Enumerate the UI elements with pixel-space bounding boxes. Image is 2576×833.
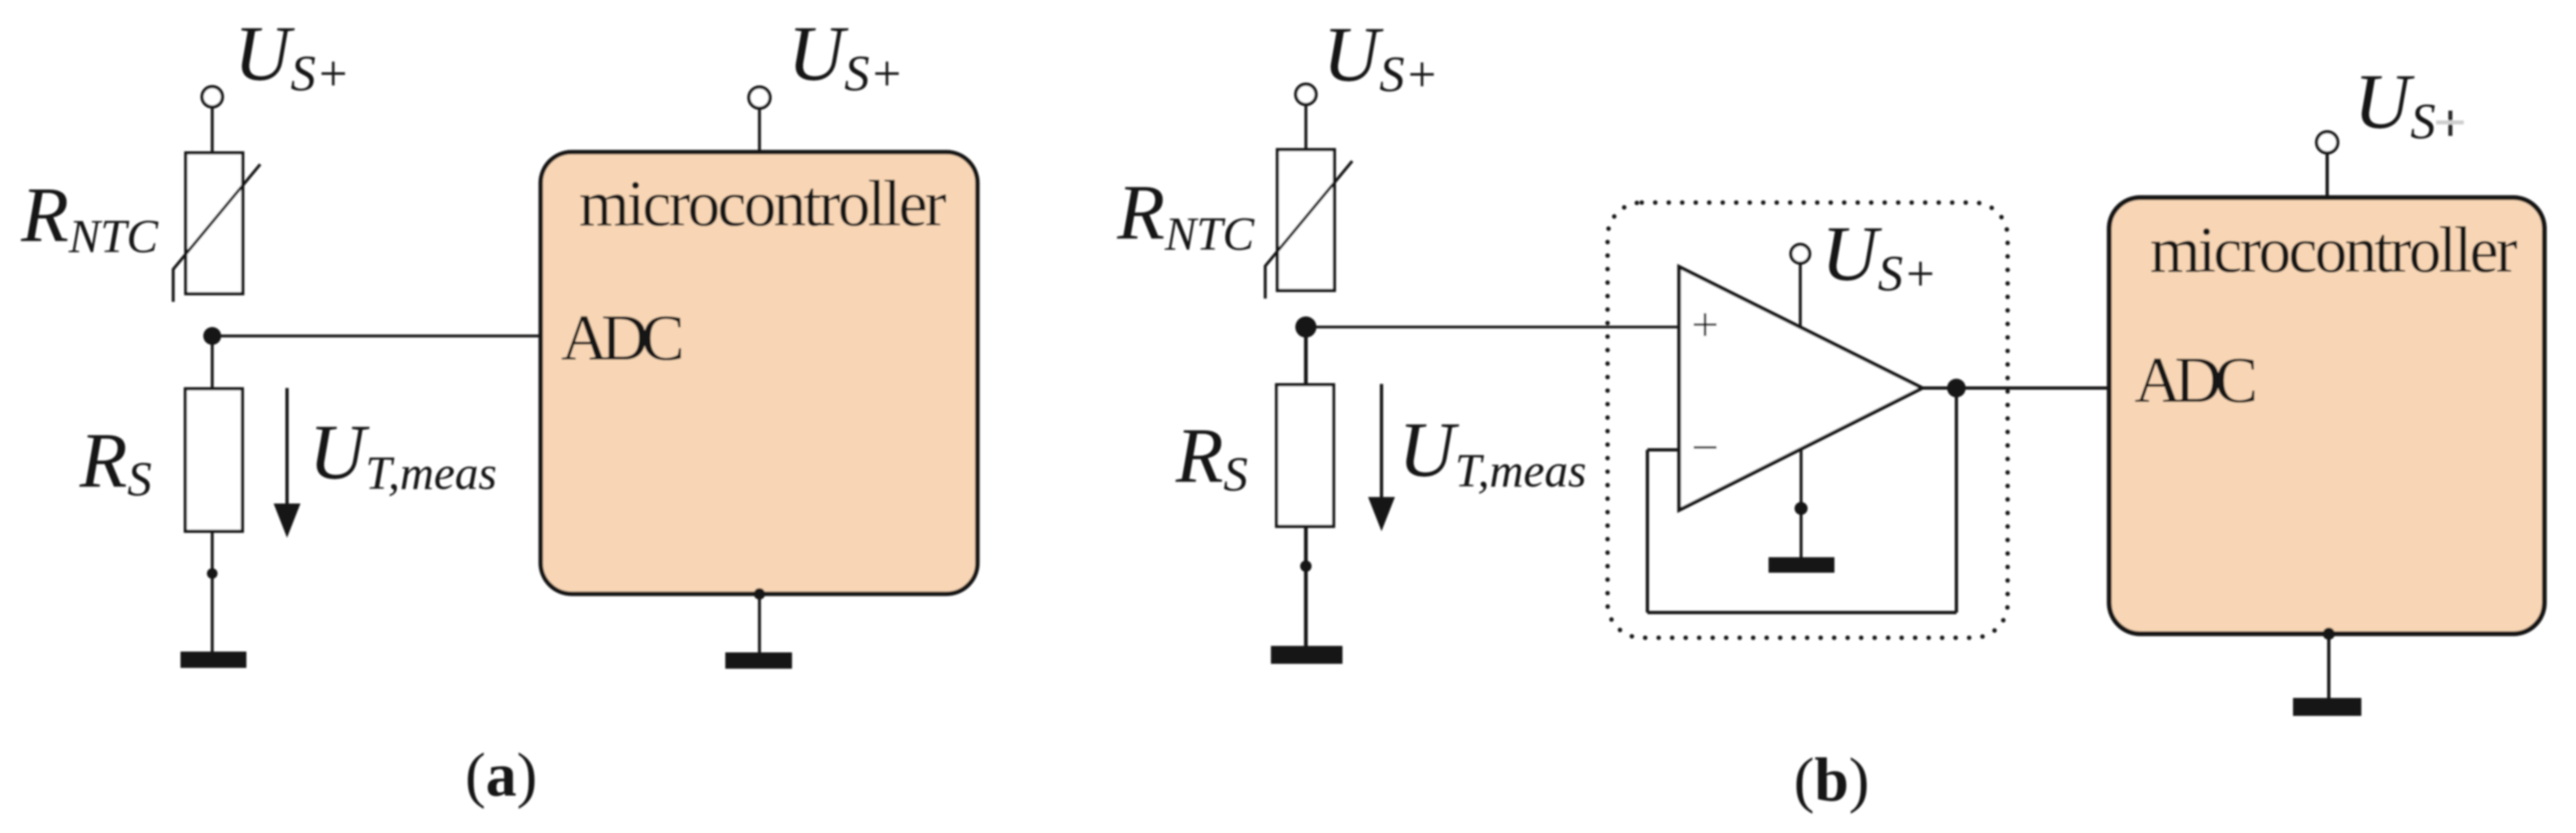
arrow U_T,meas (a): [285, 388, 289, 508]
microcontroller U1 (a): [541, 152, 977, 594]
ground (b divider): [1271, 646, 1342, 664]
resistor R_S (a): [185, 389, 242, 531]
wire junction to op-amp (b): [1306, 325, 1680, 328]
ground (op-amp): [1769, 557, 1834, 573]
svg-text:(b): (b): [1794, 746, 1869, 814]
svg-text:microcontroller: microcontroller: [579, 168, 946, 240]
wire op-amp to ground: [1799, 449, 1803, 559]
svg-text:US+: US+: [788, 10, 903, 102]
node US+ terminal (b micro): [2317, 132, 2338, 153]
node US+ terminal (a divider): [202, 87, 223, 107]
resistor R_S (b): [1277, 385, 1334, 526]
junction dot small (b): [1300, 560, 1312, 572]
junction dot box bottom (a): [754, 588, 765, 600]
svg-text:RNTC: RNTC: [20, 171, 159, 263]
ground (a divider): [181, 652, 246, 668]
buffer stage dotted box: [1608, 203, 2008, 638]
wire feedback stub: [1647, 448, 1680, 451]
svg-text:US+: US+: [234, 10, 350, 102]
wire R_S to ground (b): [1304, 526, 1308, 648]
svg-text:RS: RS: [79, 416, 152, 506]
svg-text:ADC: ADC: [2134, 345, 2258, 416]
node output junction dot: [1947, 379, 1966, 398]
wire junction down (b): [1304, 327, 1308, 386]
wire box to ground (a): [758, 594, 761, 654]
svg-text:microcontroller: microcontroller: [2150, 215, 2517, 286]
svg-text:US+: US+: [1323, 11, 1438, 102]
wire US+ to box (b): [2326, 153, 2329, 198]
svg-text:RS: RS: [1175, 412, 1248, 501]
junction dot box bottom (b): [2323, 628, 2335, 640]
wire US+ to box (a): [758, 108, 761, 153]
svg-text:UT,meas: UT,meas: [1399, 406, 1586, 497]
wire junction to ADC (a): [212, 334, 542, 338]
resistor R_NTC (b): [1277, 150, 1334, 290]
resistor R_NTC (a): [186, 153, 243, 294]
thermistor mark (a): [173, 164, 260, 302]
svg-text:US: US: [2354, 58, 2435, 150]
node US+ terminal (a micro): [749, 87, 770, 108]
svg-text:(a): (a): [465, 741, 537, 809]
wire: [211, 107, 214, 155]
svg-text:RNTC: RNTC: [1116, 168, 1255, 260]
thermistor mark (b): [1265, 161, 1352, 299]
wire: [1304, 105, 1308, 152]
wire junction down (a): [211, 336, 214, 390]
node A junction dot (a): [203, 327, 221, 345]
junction dot (op-amp ground): [1795, 502, 1808, 515]
svg-text:ADC: ADC: [561, 303, 685, 374]
node US+ terminal (b divider): [1296, 85, 1316, 105]
ground (a micro): [725, 652, 792, 669]
wire feedback down: [1646, 450, 1649, 613]
node US+ terminal (op-amp): [1791, 245, 1810, 264]
wire feedback up: [1955, 388, 1958, 613]
svg-text:+: +: [1691, 298, 1719, 351]
svg-text:UT,meas: UT,meas: [309, 408, 497, 499]
svg-text:US+: US+: [1821, 210, 1937, 302]
svg-text:−: −: [1691, 421, 1719, 474]
arrow U_T,meas (b): [1380, 384, 1383, 501]
ground (b micro): [2293, 698, 2361, 716]
wire feedback across: [1647, 611, 1956, 614]
wire box to ground (b): [2327, 634, 2330, 700]
junction dot small (a): [207, 569, 218, 579]
op-amp U2 triangle: [1679, 267, 1922, 510]
wire US+ to op-amp: [1799, 264, 1802, 328]
microcontroller U3 (b): [2109, 198, 2544, 634]
wire R_S to ground (a): [211, 531, 214, 653]
wire op-amp output: [1922, 386, 2109, 390]
node B junction dot (b): [1295, 316, 1316, 338]
